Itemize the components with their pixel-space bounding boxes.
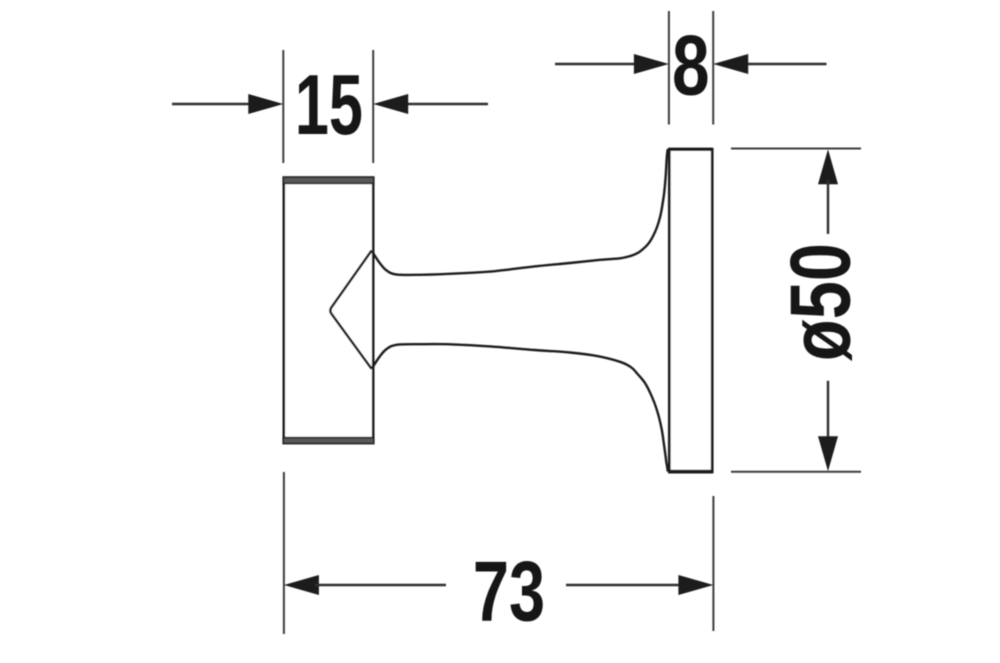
stem top outline <box>372 149 668 275</box>
wall plate bottom edge thick line <box>668 470 713 474</box>
dim 8: left extension line <box>668 11 670 125</box>
dim ø50: bottom leader line <box>827 381 829 440</box>
knob head plate (left rectangle) <box>284 178 373 443</box>
dim 73: right extension line <box>712 496 714 631</box>
svg-text:73: 73 <box>473 545 545 639</box>
dim 15: right arrowhead <box>373 94 408 114</box>
wall plate (right rectangle) <box>669 149 712 472</box>
dim 8: right extension line <box>712 11 714 125</box>
svg-text:15: 15 <box>295 57 363 152</box>
dim 15: right leader line <box>401 103 488 105</box>
dim ø50: bottom extension line <box>731 471 861 473</box>
dim 73: left leader line <box>315 584 446 586</box>
svg-text:ø50: ø50 <box>774 243 869 361</box>
wall plate top edge thick line <box>668 148 713 151</box>
cone notch (left-pointing profile) <box>330 251 371 369</box>
dim 73: right leader line <box>566 584 682 586</box>
dim 15: left leader line <box>172 103 255 105</box>
knob head plate top edge band <box>283 177 374 183</box>
svg-text:8: 8 <box>672 18 710 113</box>
dim 73: right arrowhead <box>678 575 713 595</box>
dim 8: left leader line <box>555 63 640 65</box>
dim ø50: bottom arrowhead <box>818 436 838 471</box>
dim 8: left arrowhead <box>634 54 669 74</box>
dim 15: left extension line <box>282 50 284 163</box>
dim 8: right leader line <box>741 63 827 65</box>
knob head plate bottom edge band <box>283 438 374 444</box>
dim ø50: top leader line <box>827 180 829 234</box>
dim 73: left arrowhead <box>284 575 319 595</box>
dim 15: left arrowhead <box>248 94 283 114</box>
dim 15: right extension line <box>372 50 374 163</box>
dim 8: right arrowhead <box>713 54 748 74</box>
stem bottom outline <box>372 344 668 471</box>
dim ø50: top extension line <box>731 148 861 150</box>
dim ø50: top arrowhead <box>818 149 838 184</box>
dim 73: left extension line <box>283 472 285 634</box>
